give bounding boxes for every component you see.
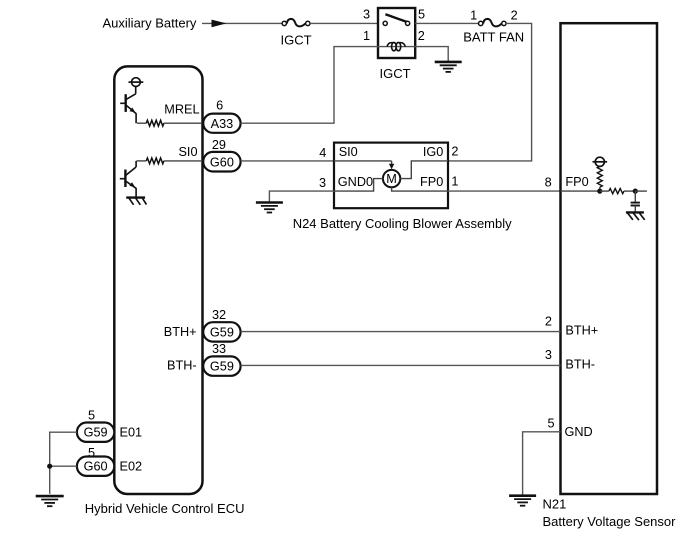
svg-text:3: 3 xyxy=(319,176,326,190)
label N21 xyxy=(543,497,567,512)
svg-text:FP0: FP0 xyxy=(565,175,588,189)
wire fuse BATT FAN to IG0 pin 2 of blower xyxy=(448,23,532,161)
pin number 33 xyxy=(212,342,226,356)
wire BTH+ net xyxy=(241,331,561,333)
wire FP0: blower pin 1 to sensor pin 8 xyxy=(448,190,561,192)
label N24 Battery Cooling Blower Assembly xyxy=(293,216,512,231)
svg-text:BTH+: BTH+ xyxy=(164,325,197,339)
wire FP0 internal xyxy=(561,190,600,192)
net label BTH+ (ECU) xyxy=(164,325,197,339)
label Auxiliary Battery xyxy=(103,16,197,31)
capacitor (filter) xyxy=(631,191,640,212)
resistor (MREL base) xyxy=(137,120,164,126)
svg-text:8: 8 xyxy=(545,175,552,189)
wire GND0 internal to motor xyxy=(334,179,383,192)
svg-text:G59: G59 xyxy=(84,426,108,440)
wire motor to FP0 pin xyxy=(392,187,448,191)
svg-text:E02: E02 xyxy=(120,459,143,473)
ground (sensor GND) xyxy=(509,496,536,506)
wire resistor to connector G60 xyxy=(164,160,203,162)
connector A33 xyxy=(203,114,240,133)
svg-text:G60: G60 xyxy=(210,155,234,169)
relay contact pin 3 xyxy=(383,21,387,25)
pin number 5 (relay) xyxy=(418,8,425,22)
svg-text:2: 2 xyxy=(451,144,458,158)
N24 Battery Cooling Blower Assembly box xyxy=(334,143,448,209)
value label IGCT (fuse) xyxy=(280,33,311,48)
ground (GND0) xyxy=(256,203,283,213)
wire fuse IGCT to relay pin 3 xyxy=(310,22,378,24)
svg-text:GND: GND xyxy=(565,425,593,439)
pin number 1 (blower FP0) xyxy=(451,175,458,189)
svg-text:BTH-: BTH- xyxy=(565,357,595,371)
chassis ground (capacitor) xyxy=(626,212,645,220)
svg-text:32: 32 xyxy=(212,308,226,322)
svg-text:1: 1 xyxy=(451,175,458,189)
svg-text:N24 Battery Cooling Blower Ass: N24 Battery Cooling Blower Assembly xyxy=(293,216,512,231)
label Battery Voltage Sensor xyxy=(543,514,677,529)
junction node (filter) xyxy=(633,189,638,194)
svg-text:1: 1 xyxy=(363,29,370,43)
connector G60 (E02) xyxy=(77,457,114,476)
pin number 3 (blower GND0) xyxy=(319,176,326,190)
svg-text:BTH-: BTH- xyxy=(167,359,197,373)
pin label E01 xyxy=(120,426,143,440)
pin label GND (sensor) xyxy=(565,425,593,439)
net label BTH- (ECU) xyxy=(167,359,197,373)
svg-text:G59: G59 xyxy=(210,325,234,339)
svg-text:29: 29 xyxy=(212,138,226,152)
pin number 5 (sensor GND) xyxy=(547,417,554,431)
wire IG0 internal to motor xyxy=(400,161,448,179)
pin number 32 xyxy=(212,308,226,322)
net label MREL xyxy=(164,102,199,116)
wire GND0 to ground xyxy=(269,191,334,202)
svg-text:2: 2 xyxy=(418,29,425,43)
pin number 2 (sensor BTH+) xyxy=(545,314,552,328)
wire SI0 internal with control arrow xyxy=(334,161,394,169)
svg-text:IGCT: IGCT xyxy=(280,33,311,48)
svg-text:2: 2 xyxy=(545,314,552,328)
wire E02 to ground rail xyxy=(50,465,77,467)
pin label BTH- (sensor) xyxy=(565,357,595,371)
pin number 2 (blower IG0) xyxy=(451,144,458,158)
pin number 3 (relay) xyxy=(363,8,370,22)
wire BTH- net xyxy=(241,364,561,366)
pin label E02 xyxy=(120,459,143,473)
arrow feed direction xyxy=(212,20,227,28)
svg-text:1: 1 xyxy=(470,9,477,23)
pin number 5 (E02) xyxy=(88,446,95,460)
svg-text:33: 33 xyxy=(212,342,226,356)
pin label GND0 (blower) xyxy=(338,175,373,189)
svg-text:BATT FAN: BATT FAN xyxy=(463,30,524,45)
value label BATT FAN xyxy=(463,30,524,45)
junction node FP0 xyxy=(597,189,602,194)
pin number 6 xyxy=(216,99,223,113)
relay coil xyxy=(378,42,415,50)
pin number 29 xyxy=(212,138,226,152)
pin number 4 (blower SI0) xyxy=(319,146,326,160)
wire relay pin 2 to ground xyxy=(415,47,448,62)
svg-text:M: M xyxy=(386,172,397,186)
pin label FP0 (blower) xyxy=(420,175,443,189)
svg-text:5: 5 xyxy=(547,417,554,431)
wire from Auxiliary Battery to fuse IGCT xyxy=(202,22,283,24)
pin label SI0 (blower) xyxy=(339,145,358,159)
relay IGCT box xyxy=(378,8,415,58)
ground (ECU E01/E02) xyxy=(36,496,64,506)
svg-text:SI0: SI0 xyxy=(178,145,197,159)
svg-text:3: 3 xyxy=(363,8,370,22)
svg-text:MREL: MREL xyxy=(164,102,199,116)
net label SI0 xyxy=(178,145,197,159)
connector G59 (E01) xyxy=(77,423,114,442)
svg-text:3: 3 xyxy=(545,348,552,362)
pin number 2 (BATT FAN) xyxy=(511,9,518,23)
connector G60 xyxy=(203,152,240,172)
label Hybrid Vehicle Control ECU xyxy=(85,501,245,516)
transistor Q1 (MREL driver) xyxy=(120,87,136,124)
svg-text:N21: N21 xyxy=(543,497,567,512)
wire stub xyxy=(635,190,647,192)
pin number 2 (relay coil) xyxy=(418,29,425,43)
connector G59 (BTH-) xyxy=(203,356,240,375)
svg-text:G59: G59 xyxy=(210,360,234,374)
svg-text:BTH+: BTH+ xyxy=(565,324,598,338)
wire GND to ground xyxy=(523,432,561,496)
label IGCT (relay) xyxy=(379,66,410,81)
chassis ground (Q2 emitter) xyxy=(126,198,146,205)
internal power symbol (ECU) xyxy=(129,78,144,87)
svg-text:4: 4 xyxy=(319,146,326,160)
svg-text:2: 2 xyxy=(511,9,518,23)
ground (relay coil) xyxy=(435,62,462,72)
svg-text:Auxiliary Battery: Auxiliary Battery xyxy=(103,16,197,31)
wire E01 to ground rail xyxy=(50,432,77,494)
resistor (SI0) xyxy=(136,158,164,164)
svg-text:IG0: IG0 xyxy=(423,145,443,159)
motor M (blower) xyxy=(383,170,400,187)
wire SI0 net: G60 to blower pin 4 xyxy=(241,160,334,162)
internal power symbol (sensor) xyxy=(593,157,608,166)
svg-text:IGCT: IGCT xyxy=(379,66,410,81)
wire relay pin 5 to fuse BATT FAN xyxy=(415,22,478,24)
svg-text:E01: E01 xyxy=(120,426,143,440)
svg-text:GND0: GND0 xyxy=(338,175,373,189)
transistor Q2 (SI0 driver) xyxy=(120,161,136,198)
svg-text:FP0: FP0 xyxy=(420,175,443,189)
fuse BATT FAN xyxy=(479,19,507,27)
relay switch arm xyxy=(385,14,406,22)
fuse IGCT xyxy=(282,19,310,27)
svg-text:5: 5 xyxy=(88,409,95,423)
Battery Voltage Sensor box xyxy=(561,23,658,494)
resistor (series, horizontal) xyxy=(600,189,636,194)
svg-text:Battery Voltage Sensor: Battery Voltage Sensor xyxy=(543,514,677,529)
pin label FP0 (sensor) xyxy=(565,175,588,189)
junction node E02/ground xyxy=(47,464,52,469)
pin number 1 (relay coil) xyxy=(363,29,370,43)
pin number 1 (BATT FAN) xyxy=(470,9,477,23)
svg-text:6: 6 xyxy=(216,99,223,113)
resistor (pull-up, vertical) xyxy=(597,166,602,191)
pin number 3 (sensor BTH-) xyxy=(545,348,552,362)
pin label BTH+ (sensor) xyxy=(565,324,598,338)
pin number 5 (E01) xyxy=(88,409,95,423)
wire MREL net: A33 to relay coil pin 1 xyxy=(241,47,378,124)
svg-text:5: 5 xyxy=(418,8,425,22)
relay contact pin 5 xyxy=(406,21,410,25)
connector G59 (BTH+) xyxy=(203,322,240,341)
wire resistor to connector A33 xyxy=(164,122,203,124)
pin label IG0 (blower) xyxy=(423,145,443,159)
svg-text:SI0: SI0 xyxy=(339,145,358,159)
svg-text:G60: G60 xyxy=(84,460,108,474)
pin number 8 (sensor FP0) xyxy=(545,175,552,189)
svg-text:Hybrid Vehicle Control ECU: Hybrid Vehicle Control ECU xyxy=(85,501,245,516)
Hybrid Vehicle Control ECU box xyxy=(114,66,202,494)
svg-text:A33: A33 xyxy=(211,117,234,131)
